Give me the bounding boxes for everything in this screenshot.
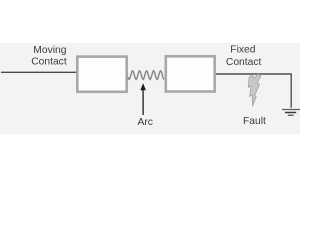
ground xyxy=(282,110,300,116)
fixed contact box xyxy=(166,56,215,91)
diagram background band xyxy=(0,43,300,135)
moving contact box xyxy=(77,57,126,92)
fault lightning bolt xyxy=(248,74,261,106)
arc squiggle xyxy=(128,71,164,80)
wire left lead xyxy=(1,71,77,73)
wire right lead xyxy=(216,74,291,108)
svg-text:Fault: Fault xyxy=(243,116,266,127)
svg-text:Moving: Moving xyxy=(33,45,66,56)
svg-text:Fixed: Fixed xyxy=(230,44,255,55)
arc pointer arrow xyxy=(142,89,144,116)
svg-text:Contact: Contact xyxy=(226,57,262,68)
svg-text:Arc: Arc xyxy=(138,117,153,128)
svg-text:Contact: Contact xyxy=(31,57,67,68)
